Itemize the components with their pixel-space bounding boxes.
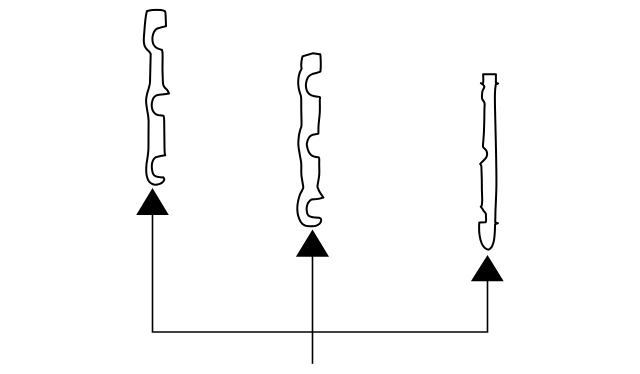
part 1 left channel profile	[144, 10, 169, 185]
arrow 2 line	[312, 256, 314, 364]
arrow 2 head	[296, 230, 329, 257]
part 2 middle channel profile	[297, 53, 323, 226]
arrow 1 line + connector	[153, 215, 488, 333]
arrow 1 head	[136, 188, 169, 215]
part 3 right channel profile	[479, 74, 498, 249]
arrow 3 head	[471, 255, 504, 281]
